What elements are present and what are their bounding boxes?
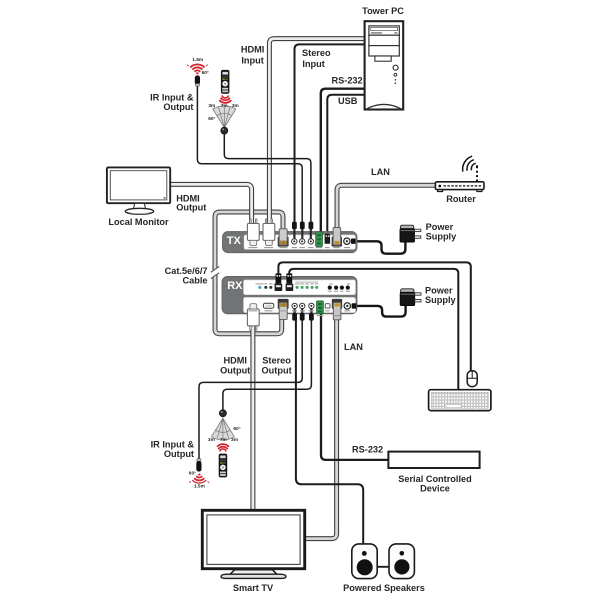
svg-text:Powered Speakers: Powered Speakers (343, 583, 425, 593)
IR emitter cable (bottom) body (196, 459, 201, 472)
RX service port (port2, flat slot) (263, 303, 273, 308)
Tower PC (365, 21, 404, 109)
TX audio jack (port at x310.8) (308, 222, 313, 244)
Smart TV (202, 510, 304, 578)
IR emitter body (top) (195, 75, 200, 86)
svg-text:Tower PC: Tower PC (362, 6, 404, 16)
RX front buttons (328, 286, 332, 290)
Router (435, 156, 484, 191)
svg-text:Output: Output (220, 365, 250, 375)
wire IR receiver ball (top) to TX port6 (224, 132, 311, 230)
svg-text:Device: Device (420, 484, 450, 494)
svg-text:Stereo: Stereo (302, 48, 331, 58)
wire IR emitter (bottom) to RX port5 (199, 314, 302, 460)
IR receiver cone (top) (213, 106, 236, 128)
wire HDMI input: Tower PC to TX port2 (gray cable) (269, 39, 364, 226)
IR beam arcs above remote (bottom) (217, 444, 229, 451)
keyboard (429, 390, 491, 411)
svg-text:Router: Router (446, 194, 476, 204)
TX unit chassis (223, 232, 358, 253)
wire LAN: RX port9 down to Smart TV right side (gray cable) (305, 315, 336, 539)
Serial Controlled Device (388, 452, 479, 468)
wire LAN: router to TX port9 (gray cable) (337, 185, 436, 228)
svg-text:IR Input &: IR Input & (151, 440, 195, 450)
RX USB service port (port8) (325, 304, 330, 308)
svg-text:Supply: Supply (425, 295, 457, 305)
RX front USB port B with plug (286, 273, 294, 291)
wire IR receiver ball (bottom) to RX port6 (223, 314, 312, 411)
mouse (467, 371, 477, 387)
svg-text:Power: Power (425, 285, 453, 295)
svg-text:Input: Input (241, 56, 263, 66)
RX front USB port A with plug (275, 273, 283, 291)
wire stereo output: RX port4 to powered speakers (296, 314, 363, 544)
TX LAN port (port9, RJ45 with gray plug) (332, 228, 342, 247)
RX CAT input port (port3, RJ45 with plug from below) (278, 299, 289, 320)
svg-text:3m: 3m (208, 437, 215, 443)
wire HDMI output: local monitor to TX port1 (gray cable) (170, 184, 252, 225)
remote control (top) (221, 70, 230, 94)
RX HDMI OUT plug (port1, white, from below) (247, 304, 259, 330)
IR emitter fan (bottom) (189, 473, 209, 483)
svg-text:Smart TV: Smart TV (233, 583, 274, 593)
wire USB: Tower PC to TX port8 (327, 95, 364, 234)
svg-text:7m: 7m (220, 437, 227, 443)
RX LAN port (port9, RJ45 with gray plug below) (332, 299, 342, 320)
svg-text:LAN: LAN (344, 342, 363, 352)
svg-text:IR Input &: IR Input & (150, 92, 194, 102)
wire IR emitter (top) to TX port5 (197, 85, 302, 230)
RX IR IN jack (port6) (309, 303, 314, 320)
IR beam arcs below remote (top) (219, 96, 231, 103)
TX HDMI IN plug (port2, white) (263, 219, 275, 246)
IR receiver ball (bottom) (219, 410, 226, 417)
svg-text:Output: Output (176, 203, 206, 213)
svg-text:RS-232: RS-232 (332, 76, 363, 86)
svg-text:Serial Controlled: Serial Controlled (398, 474, 472, 484)
router wifi arcs (471, 163, 476, 170)
router antenna (476, 167, 478, 182)
RX RS-232 green terminal block (port7) (317, 301, 324, 314)
wire Cat.5e/6/7 loop: TX port3 around left side to RX port3 (gray cable) (215, 212, 283, 334)
IR receiver cone (bottom) (211, 418, 234, 440)
remote control (bottom) (219, 454, 228, 478)
TX USB-B plug (port8) (325, 234, 331, 244)
svg-text:3m: 3m (231, 437, 238, 443)
svg-text:1.5m: 1.5m (194, 484, 205, 490)
powered speaker left (352, 544, 377, 579)
RX power supply (400, 289, 421, 306)
TX IR OUT jack (port5 position jack circle x294) (292, 222, 297, 244)
svg-text:Stereo: Stereo (262, 356, 291, 366)
svg-text:1.5m: 1.5m (192, 57, 203, 63)
TX CAT output port (port3, RJ45 with plug) (278, 229, 289, 247)
svg-text:USB: USB (338, 96, 358, 106)
wire RS-232: RX green terminal to serial controlled device (321, 314, 389, 460)
IR receiver ball (top) (221, 127, 228, 134)
wire HDMI output: RX port1 down to Smart TV (gray cable) (250, 322, 255, 510)
wire RS-232: Tower PC to TX green terminal (321, 89, 365, 233)
svg-text:3m: 3m (208, 103, 215, 109)
TX port labels (tiny) (249, 247, 351, 249)
svg-text:Power: Power (426, 222, 454, 232)
svg-text:Local Monitor: Local Monitor (108, 217, 169, 227)
RX unit chassis (222, 276, 357, 313)
RX stereo out jack (port4) (292, 303, 297, 320)
cable break marks on Cat cable (211, 266, 220, 278)
wire USB: RX front port to mouse (278, 262, 470, 371)
svg-text:60°: 60° (189, 470, 196, 476)
svg-text:HDMI: HDMI (223, 356, 246, 366)
powered speaker right (389, 544, 414, 579)
svg-text:Supply: Supply (426, 232, 458, 242)
TX power supply (400, 225, 421, 242)
RX DC power socket (port10) (344, 303, 356, 309)
wire TX power cable to power supply (352, 241, 405, 253)
wire RX power cable to power supply (356, 305, 406, 317)
Local Monitor (107, 167, 170, 214)
RX front LEDs (258, 286, 261, 289)
svg-text:LAN: LAN (371, 167, 390, 177)
svg-text:Input: Input (302, 59, 324, 69)
wire link between powered speakers (377, 566, 390, 568)
svg-text:Cat.5e/6/7: Cat.5e/6/7 (165, 266, 208, 276)
svg-text:7m: 7m (221, 103, 228, 109)
wire USB: RX front port to keyboard (289, 269, 458, 390)
svg-text:60°: 60° (208, 116, 215, 122)
wire stereo input: Tower PC to TX port4 (295, 44, 365, 228)
RX rear port labels (tiny) (249, 311, 351, 316)
svg-text:HDMI: HDMI (241, 45, 264, 55)
TX HDMI OUT plug (port1, white) (247, 219, 259, 246)
TX IR IN jack (port at x302) (300, 222, 305, 244)
TX DC power socket (port10) (344, 238, 356, 244)
svg-text:Output: Output (262, 365, 292, 375)
svg-text:Output: Output (163, 102, 193, 112)
svg-text:Cable: Cable (182, 276, 207, 286)
RX front panel labels (tiny) (256, 284, 351, 291)
svg-text:TX: TX (227, 235, 242, 247)
TX RS-232 green terminal block (port7) (316, 232, 323, 247)
IR emitter fan (top) (187, 64, 208, 75)
svg-text:60°: 60° (233, 426, 240, 432)
svg-text:3m: 3m (232, 103, 239, 109)
svg-text:60°: 60° (202, 70, 209, 76)
svg-text:RX: RX (227, 280, 243, 292)
svg-text:RS-232: RS-232 (352, 445, 383, 455)
RX IR OUT jack (port5) (300, 303, 305, 320)
svg-text:Output: Output (164, 449, 194, 459)
